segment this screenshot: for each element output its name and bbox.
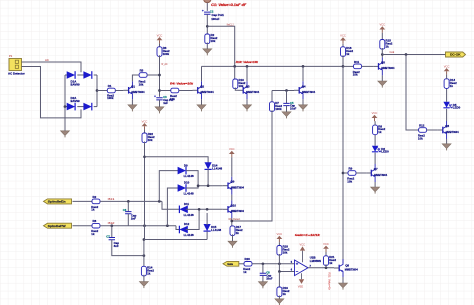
wire D12 out [186,209,199,229]
connector P1 AC input [9,59,22,71]
svg-text:VCC: VCC [444,64,450,68]
capacitor C3 1uF [156,98,162,100]
svg-text:BAV99: BAV99 [71,83,80,87]
wire [343,172,348,174]
wire jog C [162,201,180,209]
resistor R13 1k [444,79,449,89]
wire [231,157,233,177]
svg-text:Gate: Gate [227,262,233,266]
power VCC Q7 chain [372,115,378,121]
svg-text:VCC: VCC [340,34,346,38]
resistor R15 1k [380,40,385,50]
junction [143,254,146,257]
svg-text:10uF: 10uF [266,276,273,280]
junction [342,65,345,68]
capacitor C1 100uF Cap Pol [204,12,210,14]
svg-text:LM358N: LM358N [310,259,321,263]
svg-text:R1: R1 [108,84,112,88]
wire [342,44,344,47]
wire [127,214,129,226]
wire Q6 collector [446,109,448,121]
wire [381,33,383,40]
resistor R11 10k [354,64,362,69]
power VCC divider [277,236,283,242]
wire to Q3 base [235,88,238,91]
resistor R4 10k [171,88,179,93]
svg-text:P1: P1 [9,54,13,58]
wire Q9-Q10 [231,195,233,201]
svg-text:Q1: Q1 [131,84,135,88]
svg-text:Q9: Q9 [231,180,235,184]
op-amp U2B LM358N [295,260,309,276]
wire D10 out [186,186,198,188]
wire [286,106,288,112]
resistor R16 1k [341,47,346,57]
svg-text:VCC: VCC [142,119,148,123]
junction [127,200,130,203]
wire [374,121,376,125]
svg-text:Q10: Q10 [231,203,237,207]
svg-text:10k: 10k [353,73,358,77]
capacitor C7 3nF [109,238,115,240]
svg-text:100k: 100k [107,96,114,100]
wire to DC-OK port [382,54,445,56]
wire [127,201,129,211]
svg-text:10k: 10k [148,138,153,142]
ground Q3 [243,105,252,112]
wire [262,264,264,273]
junction [143,224,146,227]
svg-text:VEE: VEE [298,285,304,289]
wire [286,91,288,104]
wire [65,74,69,76]
resistor R18 10k [277,246,282,256]
ground R14 [139,282,148,289]
wire [278,296,280,299]
svg-text:C7: C7 [106,234,110,238]
resistor R14 1k [141,266,146,276]
power VCC Q5 pullup [379,26,385,32]
diode D15 LL4148 [204,224,211,231]
wire [446,87,448,102]
transistor Q5 MMBT3904 [373,57,383,75]
wire bridge right rail [96,75,98,107]
junction [405,53,408,56]
junction [143,155,146,158]
junction [233,65,236,68]
wire [232,234,234,241]
junction [166,224,169,227]
power VCC output pullup [323,246,329,252]
wire Q7 emitter [374,182,376,187]
svg-text:2nF: 2nF [131,217,136,221]
ground R2 [203,49,212,56]
resistor R8 1k [373,125,378,135]
wire to D14 [145,157,209,164]
wire [374,134,376,146]
svg-text:Gain=1+1k/1k: Gain=1+1k/1k [295,233,320,237]
svg-text:Cok: Cok [390,50,395,54]
ground Q1 [128,105,137,112]
wire [94,74,97,76]
resistor R2b 1k [92,199,100,204]
wire D9 out [186,171,198,186]
svg-text:R21: Value=1k: R21: Value=1k [328,273,332,291]
power VCC left chain [157,37,163,43]
port SpindleEn [44,199,72,204]
wire [112,240,144,256]
svg-text:C1: Value=0.1uF dF: C1: Value=0.1uF dF [211,3,247,7]
svg-text:D10: D10 [184,181,190,185]
svg-text:DC-OK: DC-OK [450,53,461,57]
wire bridge left rail [64,75,66,107]
wire [278,242,280,245]
svg-text:1k: 1k [283,292,287,296]
svg-text:Q6: Q6 [445,124,449,128]
junction [96,89,99,92]
wire bottom rail [144,239,207,241]
svg-text:D12: D12 [184,222,190,226]
svg-text:SpindleEn: SpindleEn [48,200,66,204]
svg-text:LL4148: LL4148 [212,166,222,170]
wire to +in [252,263,295,265]
wire rail Vr_AC [159,55,161,96]
wire [144,129,146,133]
wire [206,3,208,11]
resistor R9 10k [348,171,356,176]
svg-text:3nF: 3nF [114,244,119,248]
svg-text:Q2: Q2 [200,84,204,88]
svg-text:VCC: VCC [229,147,235,151]
diode D10 LL4148 [178,184,186,192]
transistor Q8 MMBT3904 [334,259,344,277]
wire [111,226,113,238]
transistor Q10 MMBT3904 [223,200,233,218]
op-amp power pin up [302,251,304,263]
svg-text:R5: R5 [140,68,144,72]
wire Q1 collector [132,75,139,81]
svg-text:10k: 10k [418,136,423,140]
svg-text:1k: 1k [378,130,382,134]
svg-text:VCC: VCC [379,23,385,27]
diode D14 LL4148 [205,162,212,169]
wire to R1 [97,90,107,92]
junction [198,208,201,211]
wire R7 to DC_Detect [232,110,272,221]
junction [158,89,161,92]
svg-text:LL4148: LL4148 [184,233,194,237]
diode D2A BAV99 [67,103,75,111]
svg-text:1k: 1k [329,261,333,265]
wire Q3 emitter [246,99,248,105]
wire rail B [167,188,179,226]
wire [143,226,146,267]
wire Q4 emitter [302,99,304,105]
svg-text:MMBT3904: MMBT3904 [381,66,394,70]
diode D11 LL4148 [179,206,187,214]
svg-text:10uF: 10uF [290,107,297,111]
LED D5 [443,102,449,108]
port Gate [223,261,239,266]
wire D15 out [206,231,208,239]
transistor Q2 MMBT3904 [193,81,203,99]
ground Q2 [197,105,206,112]
svg-text:1k: 1k [243,270,247,274]
diode D9 LL4148 [178,167,186,175]
wire [160,90,171,92]
svg-text:SpindlePW: SpindlePW [48,224,66,228]
wire op-amp output to Q8 base [333,267,335,269]
svg-text:VCC: VCC [372,111,378,115]
resistor R19 1k [277,287,282,297]
wire AC bottom feed [22,67,82,118]
transistor Q1 MMBT3904 [123,81,132,99]
junction [262,262,265,265]
ground Q7 [371,187,380,194]
wire D11 out [186,208,199,210]
wire to Q5 base [362,65,374,67]
resistor R21 1k [324,256,329,266]
wire D14 out [207,169,209,186]
ground bridge [61,131,70,138]
svg-text:100uF: 100uF [211,17,220,21]
svg-text:R2: R2 [93,195,97,199]
wire port1 [73,200,93,202]
wire IN1 [100,200,162,202]
resistor R2 10k [205,34,210,44]
svg-text:BAV99: BAV99 [71,99,80,103]
resistor R5 10k [139,73,147,78]
svg-text:VCC: VCC [323,242,329,246]
wire to Q1 base [115,90,123,92]
power supply circle VCC main [204,0,211,3]
wire [77,106,85,108]
wire Q1 emitter [131,99,133,105]
svg-text:LL4148: LL4148 [184,192,194,196]
resistor R6 1k [92,223,100,228]
resistor R10 10k [233,79,238,89]
wire Q7 collector [374,153,376,164]
transistor Q7 MMBT3904 [366,164,376,182]
svg-text:Q4: Q4 [302,84,306,88]
wire [94,106,97,108]
wire [239,263,244,265]
svg-text:MMBT3904: MMBT3904 [446,130,459,134]
wire to -in [279,271,294,273]
svg-text:R20: R20 [245,257,251,261]
svg-text:C6: C6 [123,208,127,212]
svg-text:R4: Value=10k: R4: Value=10k [170,81,193,85]
wire IN2 [100,225,176,227]
junction [278,270,281,273]
transistor Q3 MMBT3904 [238,81,248,99]
op-amp power pin down VEE [301,273,303,279]
resistor R17 1k [230,226,235,236]
ground Q6 [442,144,451,151]
svg-text:MMBT3904: MMBT3904 [374,173,387,177]
wire [206,14,208,34]
ground Q4 [299,105,308,112]
svg-text:DC_Detect: DC_Detect [229,217,241,221]
diode D1A BAV99 [67,71,75,79]
wire long vertical [342,66,344,263]
wire Q4 base [272,90,294,92]
wire port2 [73,225,93,227]
resistor R1 100k [107,88,115,93]
svg-text:MMBT3904: MMBT3904 [231,186,244,190]
svg-text:Q7: Q7 [374,167,378,171]
svg-text:10k: 10k [283,251,288,255]
wire jog D [176,226,180,230]
wire to Q6 base [427,129,438,131]
svg-text:R6: R6 [93,219,97,223]
resistor R3 100k [157,47,162,57]
wire Q2 emitter [201,99,203,105]
wire to R12 [406,55,419,131]
junction [342,172,345,175]
power VCC clamp [229,151,235,157]
resistor R12 10k [419,128,427,133]
svg-text:LL4148: LL4148 [184,174,194,178]
wire Q5 collector [381,55,383,58]
svg-text:1uF: 1uF [163,101,168,105]
svg-text:R10: Value=10k: R10: Value=10k [236,60,259,64]
junction [110,224,113,227]
wire D15 in [206,213,208,225]
LED D6 [372,146,378,152]
wire to bus [207,26,234,66]
junction [207,184,210,187]
svg-text:LED0: LED0 [453,106,461,110]
junction [325,266,328,269]
svg-text:LL4148: LL4148 [184,213,194,217]
wire [159,43,161,46]
capacitor C6 2nF [125,212,131,214]
svg-text:1k: 1k [91,208,95,212]
diode D2B BAV99 [83,103,91,111]
junction [206,25,209,28]
wire Q6 emitter [446,139,448,144]
wire AC top feed [22,62,82,72]
svg-text:100k: 100k [163,52,170,56]
wire [65,106,69,108]
svg-text:VCC: VCC [300,243,306,247]
svg-text:D11: D11 [184,202,190,206]
ground C8 [258,282,267,289]
ground C3 [155,107,164,114]
wire to Q9 base [198,185,223,187]
ground Q5 [378,81,387,88]
junction [302,65,305,68]
port DC-OK [446,52,466,57]
wire bus Vdet [202,65,344,67]
wire [278,272,280,288]
junction [143,238,146,241]
svg-text:AC: AC [45,58,49,62]
wire Q3 collector [246,66,248,81]
svg-text:100k: 100k [275,107,282,111]
junction [158,74,161,77]
wire [325,252,327,256]
junction [64,105,67,108]
svg-text:IN1: IN1 [108,197,116,201]
wire Q8 emitter [342,277,344,283]
junction [230,220,233,223]
svg-text:1k: 1k [386,45,390,49]
svg-text:10k: 10k [347,179,352,183]
svg-text:VCC: VCC [157,33,163,37]
resistor R7 100k [270,102,275,112]
svg-text:D9: D9 [184,163,188,167]
junction [285,89,288,92]
wire to rail [147,74,159,76]
wire [325,264,327,268]
power VCC Q6 chain [444,68,450,74]
wire Q2 collector to bus [201,66,203,81]
ground C5 [282,112,291,119]
svg-text:VCC: VCC [277,232,283,236]
wire [271,91,273,102]
svg-text:AC Detector: AC Detector [8,71,26,75]
transistor Q9 MMBT3904 [223,177,233,195]
svg-text:1k: 1k [450,84,454,88]
svg-text:MMBT3904: MMBT3904 [302,90,315,94]
svg-text:1k: 1k [147,271,151,275]
junction [381,53,384,56]
svg-text:1k: 1k [236,231,240,235]
wire [343,65,354,67]
wire [446,74,448,78]
wire [234,66,237,79]
wire op-amp output [308,267,334,269]
junction [206,208,209,211]
svg-text:MMBT3904: MMBT3904 [246,90,259,94]
junction [197,184,200,187]
diode D12 LL4148 [179,226,187,234]
svg-text:10k: 10k [139,82,144,86]
wire Q5 emitter [381,75,383,81]
junction [158,200,161,203]
wire [144,142,146,226]
wire [143,275,145,282]
wire [159,100,161,107]
wire to Q2 base [179,90,193,92]
junction [278,262,281,265]
ground R17 [228,241,237,248]
wire [206,43,208,49]
svg-text:10k: 10k [211,39,216,43]
svg-text:LED0: LED0 [381,150,389,154]
power VCC bus pullup [340,37,346,43]
junction [246,65,249,68]
wire rail A [159,171,179,202]
resistor R22 10k [142,133,147,143]
wire [262,275,264,281]
capacitor C8 10uF [260,273,266,275]
wire [77,74,85,76]
svg-text:R9: R9 [349,166,353,170]
svg-text:MMBT3904: MMBT3904 [345,267,358,271]
wire to Q7 base [356,172,366,174]
ground R19 [275,299,284,305]
wire to Q10 base [199,208,223,210]
power VCC cluster [142,123,148,129]
svg-text:MMBT3904: MMBT3904 [231,209,244,213]
transistor Q4 MMBT3904 [294,81,304,99]
svg-text:R11: R11 [354,60,360,64]
svg-text:LL4148: LL4148 [211,228,221,232]
wire [278,254,280,272]
